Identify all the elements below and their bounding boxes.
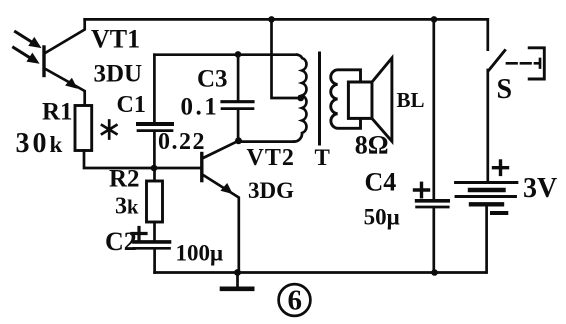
svg-text:C3: C3 (197, 66, 228, 93)
capacitor C4 (415, 19, 449, 272)
svg-text:VT2: VT2 (247, 145, 295, 171)
phototransistor VT1 (44, 19, 85, 105)
figure number circle 6 (279, 284, 311, 316)
svg-text:6: 6 (288, 285, 303, 317)
wire base to VT2 (154, 167, 200, 170)
svg-text:R1: R1 (42, 99, 73, 126)
transformer T secondary winding (331, 70, 361, 128)
svg-text:C4: C4 (365, 168, 397, 197)
wire R1 bottom to base node (84, 151, 154, 169)
transformer core (318, 53, 321, 144)
node C3 / coil / collector junction (235, 137, 242, 144)
transistor VT2 (202, 141, 239, 273)
svg-text:8Ω: 8Ω (355, 131, 389, 160)
transformer T primary winding (294, 55, 306, 142)
light arrow 1 (16, 32, 42, 48)
svg-text:3DG: 3DG (248, 178, 294, 203)
svg-text:C1: C1 (117, 92, 146, 118)
svg-text:3k: 3k (115, 194, 139, 220)
node base junction (151, 165, 158, 172)
svg-text:VT1: VT1 (91, 25, 140, 54)
ground (222, 273, 252, 289)
svg-text:BL: BL (397, 88, 425, 112)
battery 3V (456, 161, 517, 273)
resistor R2 (147, 168, 163, 240)
svg-text:C2: C2 (105, 227, 137, 256)
wire coil bottom (239, 140, 295, 143)
svg-text:S: S (497, 74, 513, 105)
capacitor C3 (222, 54, 253, 140)
wire bottom rail (155, 271, 486, 274)
svg-text:100μ: 100μ (176, 241, 224, 266)
switch S (488, 48, 545, 183)
svg-text:3DU: 3DU (94, 60, 143, 87)
node emitter / rail junction (234, 269, 241, 276)
svg-text:T: T (315, 145, 330, 170)
wire second rail (154, 53, 297, 56)
svg-text:0.22: 0.22 (158, 129, 206, 155)
resistor R1 (75, 106, 92, 151)
svg-text:3V: 3V (523, 173, 557, 204)
wire tap from top rail (272, 19, 301, 98)
node top rail / C4 (431, 16, 438, 23)
wire top rail (85, 19, 488, 49)
svg-text:0.1: 0.1 (181, 94, 220, 121)
svg-text:R2: R2 (109, 166, 140, 193)
node top rail / tap (268, 16, 275, 23)
node bottom rail / C4 (431, 269, 438, 276)
node second rail / C3 (235, 51, 242, 58)
light arrow 2 (14, 48, 40, 64)
speaker BL (348, 58, 392, 141)
asterisk mark (102, 121, 116, 139)
capacitor C2 (132, 228, 170, 273)
node tap junction (297, 95, 304, 102)
capacitor C1 (138, 55, 172, 168)
svg-text:50μ: 50μ (364, 205, 400, 230)
svg-text:30k: 30k (16, 128, 66, 159)
